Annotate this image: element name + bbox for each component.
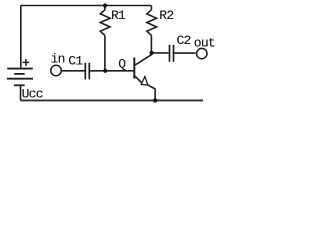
wire in to C1 — [62, 70, 85, 72]
wire top rail — [21, 5, 152, 7]
svg-text:out: out — [194, 36, 215, 51]
transistor Q emitter lead — [135, 76, 142, 83]
battery B1 — [7, 69, 33, 86]
svg-text:C1: C1 — [68, 54, 83, 69]
wire collector to C2 — [152, 52, 169, 54]
wire left vertical — [20, 6, 22, 69]
wire R1 to base node — [104, 35, 106, 70]
node collector junction — [150, 51, 154, 55]
transistor Q base bar — [133, 58, 135, 79]
capacitor C2 — [170, 45, 174, 62]
wire bottom rail — [21, 99, 204, 101]
resistor R2 — [147, 10, 157, 36]
wire battery to bottom rail — [20, 85, 22, 100]
svg-text:R2: R2 — [159, 8, 173, 23]
node emitter / bottom rail junction — [153, 98, 157, 102]
svg-text:Q: Q — [118, 57, 126, 72]
wire emitter to bottom rail — [148, 85, 155, 100]
transistor Q emitter arrow — [141, 77, 148, 86]
terminal out — [197, 48, 207, 58]
svg-text:R1: R1 — [111, 8, 126, 23]
transistor Q collector lead — [135, 53, 151, 65]
svg-text:C2: C2 — [177, 33, 191, 48]
terminal in — [51, 65, 62, 76]
wire C2 to out — [174, 52, 195, 54]
svg-text:Ucc: Ucc — [22, 87, 43, 102]
battery plus sign — [23, 59, 30, 66]
wire C1 to base — [90, 70, 133, 72]
capacitor C1 — [85, 63, 89, 80]
wire R2 to collector node — [150, 35, 152, 52]
node base junction — [103, 69, 107, 73]
wire top rail corner to R2 — [150, 6, 152, 10]
resistor R1 — [100, 6, 110, 36]
svg-text:in: in — [51, 52, 65, 67]
node top rail / R1 junction — [103, 3, 107, 7]
